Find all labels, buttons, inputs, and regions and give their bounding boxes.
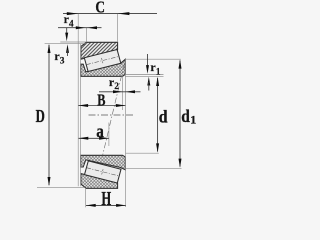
dimension H: [86, 189, 126, 210]
ext line chamfer box vertical: [85, 28, 87, 43]
dimension d: [156, 77, 167, 153]
ref line D bottom: [37, 187, 84, 189]
svg-text:H: H: [101, 189, 111, 210]
outer ring (cup) upper, hatched: [81, 42, 118, 59]
roller axis dash-dot: [86, 56, 119, 64]
ref line D top: [45, 43, 87, 45]
ext line cup back face / C left: [77, 14, 79, 187]
inner ring (cone) upper, hatched: [81, 59, 126, 76]
dimension C: [63, 0, 157, 17]
svg-text:a: a: [96, 121, 104, 141]
ref line bore top extended: [125, 75, 163, 77]
dimension r4: [58, 12, 102, 41]
svg-text:D: D: [36, 106, 45, 126]
dimension r3: [54, 44, 69, 66]
dimension a: [79, 121, 109, 141]
ext line r2 inner: [122, 76, 124, 110]
ref line cup OD extended left: [60, 41, 86, 43]
ref line bore bottom extended: [126, 152, 159, 154]
svg-text:B: B: [97, 90, 105, 109]
pressure line: [103, 64, 125, 155]
ref line rib top extended, d1: [125, 58, 180, 60]
ext line H left: [85, 189, 87, 208]
ext line cone back face, right: [124, 59, 126, 207]
dimension D: [36, 44, 51, 186]
ref line rib bottom extended, d1: [125, 167, 181, 169]
ext line cone front face: [80, 44, 82, 186]
ext line C right / cup front face: [117, 14, 119, 43]
dimension d1: [179, 59, 197, 167]
svg-text:C: C: [95, 0, 105, 17]
ref line r1 upper / chamfer: [125, 74, 163, 76]
svg-text:d: d: [159, 107, 168, 127]
dimension B: [78, 90, 125, 109]
tapered roller lower: [85, 161, 122, 183]
dimension r1: [146, 54, 161, 91]
outer ring (cup) lower, hatched: [81, 174, 118, 189]
dimension r2: [99, 75, 141, 93]
tapered roller upper: [84, 50, 121, 72]
inner ring (cone) lower, hatched: [81, 155, 126, 170]
ext line a right: [108, 123, 110, 147]
axis centreline: [89, 114, 134, 116]
